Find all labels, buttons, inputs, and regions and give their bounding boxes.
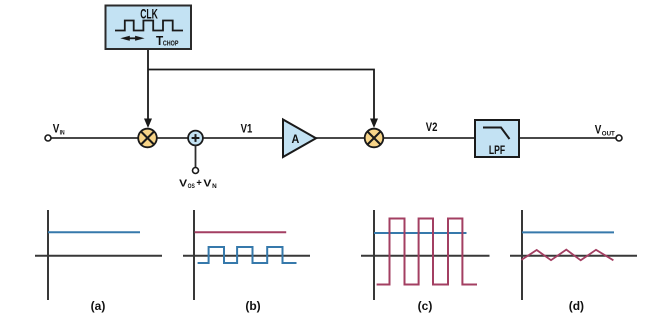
- waveform (d) blue DC: [522, 231, 614, 233]
- wire CLK to mixer M1: [144, 49, 152, 128]
- svg-text:V: V: [203, 178, 211, 190]
- label TCHOP: [156, 33, 178, 48]
- svg-text:V2: V2: [426, 120, 438, 134]
- block CLK: [106, 6, 192, 50]
- svg-text:LPF: LPF: [489, 145, 505, 157]
- label CLK: [140, 6, 158, 22]
- axis (c) horizontal: [361, 255, 490, 257]
- svg-text:(d): (d): [569, 299, 584, 313]
- waveform (a) blue DC: [48, 231, 140, 233]
- terminal VOUT: [616, 135, 622, 141]
- wire CLK branch to mixer M2: [148, 70, 378, 129]
- waveform (d) red ripple: [521, 250, 613, 261]
- Tchop double arrow: [120, 36, 144, 41]
- label (a): [91, 299, 106, 313]
- svg-text:+: +: [196, 178, 202, 189]
- svg-text:A: A: [292, 132, 300, 146]
- wire VOS stub: [195, 145, 197, 167]
- waveform (b) blue chopped square: [198, 247, 297, 263]
- svg-text:V: V: [595, 124, 602, 136]
- axis (b) horizontal: [183, 255, 310, 257]
- svg-text:V: V: [179, 178, 187, 190]
- block LPF: [475, 120, 519, 157]
- terminal VOS: [193, 168, 199, 174]
- op-amp A: [283, 120, 316, 158]
- label VIN: [53, 124, 65, 137]
- svg-text:OUT: OUT: [602, 131, 615, 138]
- svg-text:(b): (b): [245, 299, 260, 313]
- svg-text:(a): (a): [91, 299, 106, 313]
- axis (d) vertical: [521, 210, 523, 300]
- svg-text:OS: OS: [188, 184, 195, 190]
- svg-text:CHOP: CHOP: [163, 39, 179, 48]
- waveform (b) red DC: [195, 231, 287, 233]
- label (c): [418, 299, 433, 313]
- wire main signal line: [51, 137, 616, 139]
- label V1: [241, 121, 253, 135]
- axis (a) vertical: [47, 210, 49, 300]
- mixer M2: [365, 129, 384, 148]
- svg-text:(c): (c): [418, 299, 433, 313]
- axis (a) horizontal: [35, 255, 162, 257]
- label VOUT: [595, 124, 615, 137]
- svg-text:N: N: [212, 184, 217, 190]
- label (b): [245, 299, 260, 313]
- axis (c) vertical: [373, 210, 375, 300]
- waveform (c) red modulated square: [377, 219, 477, 285]
- svg-text:IN: IN: [60, 130, 65, 137]
- svg-text:V1: V1: [241, 121, 253, 135]
- label V2: [426, 120, 438, 134]
- summing node S1: [188, 131, 203, 146]
- mixer M1: [138, 129, 157, 148]
- label (d): [569, 299, 584, 313]
- label VOS+VN: [179, 178, 217, 191]
- svg-text:CLK: CLK: [140, 6, 158, 22]
- axis (d) horizontal: [510, 255, 637, 257]
- clock square-wave symbol: [115, 21, 183, 31]
- axis (b) vertical: [193, 210, 195, 300]
- waveform (c) blue DC: [374, 232, 467, 234]
- terminal VIN: [45, 135, 51, 141]
